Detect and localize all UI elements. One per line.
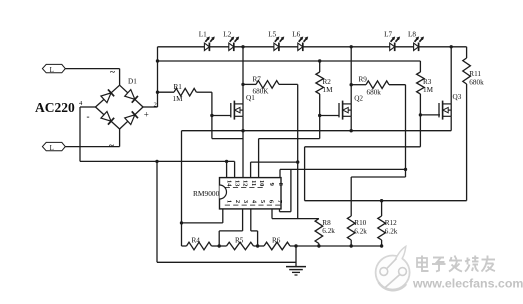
svg-text:+: + bbox=[144, 110, 149, 120]
svg-text:3: 3 bbox=[242, 200, 249, 203]
svg-text:6.2k: 6.2k bbox=[385, 228, 398, 236]
svg-text:R6: R6 bbox=[272, 236, 281, 244]
svg-text:R1: R1 bbox=[174, 83, 183, 91]
svg-text:680k: 680k bbox=[469, 78, 484, 86]
svg-text:D1: D1 bbox=[128, 78, 137, 86]
svg-text:L8: L8 bbox=[408, 31, 416, 39]
svg-text:L5: L5 bbox=[268, 31, 276, 39]
svg-text:Q3: Q3 bbox=[453, 93, 462, 101]
svg-text:680K: 680K bbox=[253, 88, 270, 96]
svg-text:11: 11 bbox=[250, 180, 257, 186]
svg-text:Q2: Q2 bbox=[354, 95, 363, 103]
svg-text:L6: L6 bbox=[292, 31, 300, 39]
svg-text:RM9000: RM9000 bbox=[193, 189, 220, 198]
svg-text:R12: R12 bbox=[385, 219, 397, 227]
svg-text:1M: 1M bbox=[323, 86, 334, 94]
svg-text:L7: L7 bbox=[384, 31, 392, 39]
svg-text:www.elecfans.com: www.elecfans.com bbox=[412, 277, 523, 291]
svg-text:5: 5 bbox=[259, 200, 266, 203]
svg-text:R10: R10 bbox=[354, 219, 366, 227]
svg-text:2: 2 bbox=[154, 102, 157, 109]
svg-text:R7: R7 bbox=[253, 76, 262, 84]
svg-text:9: 9 bbox=[268, 183, 275, 186]
svg-text:14: 14 bbox=[225, 180, 232, 187]
svg-text:R9: R9 bbox=[359, 75, 368, 83]
svg-text:R8: R8 bbox=[322, 219, 331, 227]
svg-text:10: 10 bbox=[258, 180, 265, 186]
svg-text:L2: L2 bbox=[223, 31, 231, 39]
svg-text:L: L bbox=[50, 67, 54, 74]
svg-text:6.2k: 6.2k bbox=[322, 227, 335, 235]
svg-text:AC220: AC220 bbox=[35, 100, 75, 115]
svg-text:8: 8 bbox=[277, 183, 284, 186]
svg-text:13: 13 bbox=[234, 180, 241, 186]
svg-text:-: - bbox=[87, 112, 90, 122]
svg-text:R4: R4 bbox=[192, 237, 201, 245]
svg-text:2: 2 bbox=[234, 200, 241, 203]
svg-text:12: 12 bbox=[242, 180, 249, 186]
svg-text:L1: L1 bbox=[199, 31, 207, 39]
svg-text:~: ~ bbox=[110, 68, 115, 78]
svg-text:1M: 1M bbox=[173, 95, 184, 103]
svg-text:R2: R2 bbox=[323, 78, 332, 86]
svg-text:6.2k: 6.2k bbox=[354, 228, 367, 236]
svg-text:1: 1 bbox=[225, 200, 232, 203]
svg-text:R3: R3 bbox=[423, 78, 432, 86]
svg-text:R5: R5 bbox=[235, 237, 244, 245]
svg-text:680k: 680k bbox=[367, 89, 382, 97]
svg-text:L: L bbox=[50, 145, 54, 152]
svg-text:~: ~ bbox=[109, 141, 114, 151]
svg-text:1M: 1M bbox=[423, 86, 434, 94]
svg-text:R11: R11 bbox=[469, 70, 481, 78]
